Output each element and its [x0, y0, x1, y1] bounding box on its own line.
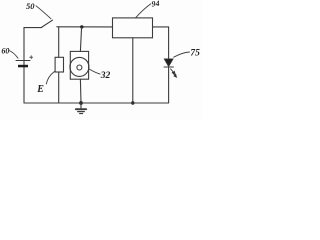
label E leader [46, 71, 54, 84]
label 60 leader [9, 51, 18, 59]
ground stub [80, 103, 82, 109]
label 50 leader [36, 6, 51, 19]
wire LED to bottom bus [168, 67, 170, 103]
wire bottom bus [24, 102, 169, 104]
LED 75 emission arrow 1 [171, 69, 176, 74]
motor 32 shaft circle [77, 65, 82, 70]
svg-text:94: 94 [151, 0, 160, 9]
label 32 leader [89, 69, 100, 74]
wire 94 bottom drop [132, 38, 134, 103]
wire switch input horizontal [24, 27, 42, 29]
node junction bottom bus / 94 [131, 101, 134, 104]
battery 60 positive plate [16, 60, 30, 62]
LED 75 emission arrow 2 [172, 72, 176, 77]
svg-text:32: 32 [100, 71, 111, 81]
battery 60 negative plate [18, 65, 28, 68]
node junction bottom bus / motor / ground [79, 101, 83, 105]
wire motor top [80, 27, 81, 52]
node junction top bus / motor [80, 25, 83, 28]
svg-text:60: 60 [1, 47, 9, 56]
label 94 leader [136, 4, 151, 18]
electromagnet E box [55, 57, 63, 72]
battery 60 plus sign [30, 56, 33, 59]
wire electromagnet to bottom bus [58, 72, 60, 103]
motor 32 rotor circle [70, 57, 89, 76]
wire 94 right output [153, 27, 169, 59]
wire motor bottom [79, 79, 82, 103]
wire electromagnet drop from bus [58, 27, 60, 58]
switch 50 blade [41, 20, 52, 27]
svg-text:E: E [36, 84, 44, 95]
label 75 leader [174, 52, 190, 57]
wire top bus [57, 26, 113, 28]
ground bars [76, 108, 86, 110]
LED 75 anode triangle [164, 59, 173, 67]
svg-text:50: 50 [26, 1, 35, 11]
LED 75 cathode bar [164, 66, 173, 68]
wire battery-to-switch left vertical [23, 28, 25, 103]
control circuit 94 box [113, 18, 153, 38]
svg-text:75: 75 [190, 49, 200, 59]
motor 32 body [70, 51, 88, 79]
